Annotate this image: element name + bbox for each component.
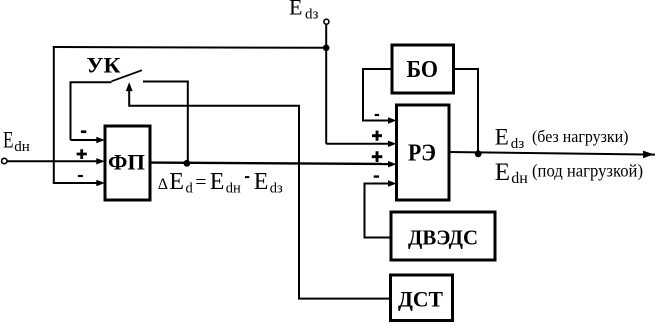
label formula ΔEd = Edн - Edз <box>158 169 283 197</box>
svg-text:d: d <box>186 181 194 197</box>
wire ДВЭДС output to РЭ minus input 4 <box>365 184 392 238</box>
svg-text:=: = <box>195 172 206 194</box>
wire РЭ output with arrow <box>449 152 655 155</box>
svg-text:E: E <box>169 169 184 195</box>
label plus at РЭ input 3 <box>372 151 383 162</box>
svg-text:E: E <box>289 0 302 20</box>
wire Edз to РЭ plus input 2 <box>326 143 390 145</box>
svg-text:dз: dз <box>511 136 525 152</box>
block РЭ <box>397 105 450 200</box>
block ФП <box>105 126 150 200</box>
svg-text:ДСТ: ДСТ <box>398 287 443 312</box>
wire Edз vertical down <box>325 24 327 144</box>
label plus at ФП input 2 <box>77 149 87 159</box>
svg-text:Δ: Δ <box>158 176 168 193</box>
block ДВЭДС <box>391 212 495 260</box>
svg-text:ДВЭДС: ДВЭДС <box>408 226 478 250</box>
svg-text:E: E <box>254 169 269 195</box>
wire into ФП bottom minus input <box>53 182 98 184</box>
svg-text:(без нагрузки): (без нагрузки) <box>532 127 629 146</box>
svg-text:dз: dз <box>270 181 283 197</box>
svg-text:E: E <box>495 159 510 186</box>
svg-text:dз: dз <box>305 7 319 23</box>
terminal circle Edз <box>324 19 329 24</box>
svg-text:E: E <box>495 125 509 150</box>
wire top horizontal Edз to left loop <box>54 46 326 49</box>
svg-text:ФП: ФП <box>108 150 145 175</box>
terminal circle Edн <box>2 158 7 163</box>
wire Edн to ФП plus input <box>8 160 99 162</box>
svg-text:dн: dн <box>511 170 528 187</box>
svg-text:(под нагрузкой): (под нагрузкой) <box>532 161 643 181</box>
svg-text:E: E <box>3 128 14 153</box>
label plus at РЭ input 2 <box>372 131 382 141</box>
label minus at РЭ input 1 <box>375 114 379 116</box>
block ДСТ <box>391 275 453 321</box>
block БО <box>392 45 454 93</box>
wire БО input from РЭ output line <box>454 69 479 151</box>
label minus at ФП input 1 <box>81 130 86 133</box>
label minus at ФП input 3 <box>78 175 83 177</box>
svg-text:БО: БО <box>407 56 439 83</box>
wire БО output to РЭ minus input 1 <box>363 69 392 121</box>
svg-text:dн: dн <box>14 139 30 155</box>
switch УК blade <box>112 70 143 81</box>
junction dot on ФП output line <box>184 160 191 167</box>
switch УК right wire down to ФП output junction <box>143 82 188 162</box>
wire ФП output to РЭ plus input 3 <box>151 163 391 164</box>
wire into ФП top minus input <box>71 139 99 141</box>
switch УК left wire <box>71 82 112 140</box>
svg-text:dн: dн <box>226 181 241 197</box>
label minus at РЭ input 4 <box>374 175 379 177</box>
svg-text:УК: УК <box>86 53 120 78</box>
junction dot on РЭ output line <box>475 150 482 157</box>
junction dot at top line / Edз <box>323 45 330 52</box>
svg-text:РЭ: РЭ <box>408 141 436 167</box>
wire left vertical of Edз loop <box>53 46 55 183</box>
wire ДСТ to switch control (up arrow) <box>129 88 390 299</box>
svg-text:E: E <box>210 169 225 195</box>
